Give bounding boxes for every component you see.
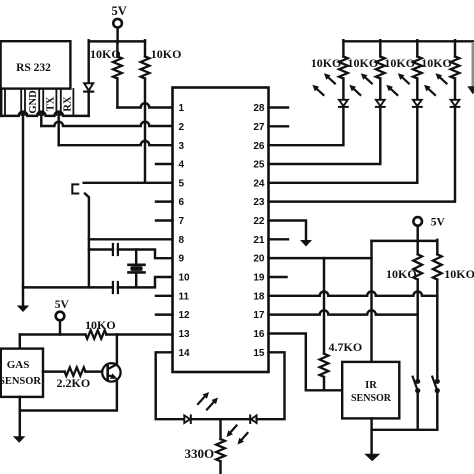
svg-text:SENSOR: SENSOR bbox=[351, 393, 392, 404]
ground (IR sensor) bbox=[364, 454, 380, 462]
svg-text:20: 20 bbox=[253, 254, 265, 265]
wire: crystal top lead bbox=[135, 250, 137, 265]
wire: R3 to pin 13 bbox=[106, 333, 172, 335]
svg-text:11: 11 bbox=[179, 291, 190, 302]
wire: 5V to rail bbox=[116, 28, 118, 43]
cropped wire at right edge bbox=[472, 42, 474, 87]
LED D7 bbox=[451, 100, 460, 106]
diode D1 bbox=[84, 83, 93, 90]
svg-text:10KO: 10KO bbox=[90, 47, 121, 61]
svg-text:25: 25 bbox=[253, 160, 265, 171]
wire: rail to diode D1 anode bbox=[87, 40, 89, 83]
D7 light arrows bbox=[440, 78, 446, 84]
ground (RS232 GND net) bbox=[17, 306, 29, 313]
LED D6 bbox=[413, 100, 422, 106]
D6 light arrows bbox=[402, 78, 408, 84]
svg-text:16: 16 bbox=[253, 329, 265, 340]
svg-text:5V: 5V bbox=[55, 299, 70, 311]
5V supply P3 bbox=[413, 217, 422, 226]
wire: junction down to R5 bbox=[219, 419, 221, 439]
switch S1 bbox=[415, 379, 420, 384]
LED D4 bbox=[339, 100, 348, 106]
wire: crystal bottom lead bbox=[135, 272, 137, 287]
pin 28 stub bbox=[269, 106, 289, 108]
pin 21 stub bbox=[269, 238, 289, 240]
wire: ground rail to C2 bbox=[23, 286, 113, 288]
wire: pin 18 net (hops R10, IR column, R11) bbox=[269, 291, 438, 295]
svg-text:5V: 5V bbox=[112, 4, 127, 18]
wire: down to gas sensor bbox=[19, 335, 21, 349]
pin 19 stub bbox=[269, 276, 287, 278]
wire: 5V to pin13 net bbox=[59, 320, 61, 334]
wire: R5 to bottom edge bbox=[219, 461, 221, 474]
IR sensor module bbox=[342, 362, 399, 419]
wire: D4 to pin 26 bbox=[269, 107, 344, 145]
wire: R12 to switch S2 (pin 18 tap) bbox=[436, 280, 438, 381]
wire: R4 to Q1 base bbox=[86, 370, 103, 372]
wire: C1 left lead bbox=[89, 248, 113, 250]
svg-text:23: 23 bbox=[253, 197, 265, 208]
svg-text:5: 5 bbox=[179, 178, 185, 189]
svg-text:10KO: 10KO bbox=[384, 56, 415, 70]
wire: pin 13 net left segment bbox=[20, 333, 86, 335]
svg-text:17: 17 bbox=[253, 310, 265, 321]
wire: TX vertical bbox=[40, 114, 42, 127]
wire: top-left rail bbox=[89, 40, 145, 42]
wire: R7 to LED D5 bbox=[379, 79, 381, 100]
svg-text:21: 21 bbox=[253, 235, 265, 246]
wire: shell bus to diode cathode (hops GND, TX, RX) bbox=[1, 112, 89, 116]
wire: RS232 shell to bus bbox=[0, 89, 2, 116]
svg-text:6: 6 bbox=[179, 197, 185, 208]
wire: RX to pin 3 (hops R2 wire) bbox=[59, 141, 173, 145]
wire: pin 17 net (hops R10, IR column) bbox=[269, 310, 418, 314]
pin 11 stub bbox=[156, 295, 173, 297]
svg-text:10KO: 10KO bbox=[348, 56, 379, 70]
cropped arrowhead at right edge bbox=[467, 86, 474, 94]
svg-text:GND: GND bbox=[28, 90, 39, 114]
svg-text:GAS: GAS bbox=[7, 359, 30, 371]
svg-text:10KO: 10KO bbox=[311, 56, 342, 70]
svg-text:10KO: 10KO bbox=[444, 267, 474, 281]
wire: gas sensor bottom to ground bbox=[19, 397, 21, 437]
svg-text:18: 18 bbox=[253, 291, 265, 302]
LED D2 bbox=[184, 415, 190, 423]
LED D5 bbox=[376, 100, 385, 106]
ground (pin 22) bbox=[300, 240, 312, 247]
svg-text:14: 14 bbox=[179, 348, 191, 359]
wire: C1 to crystal node, jog to pin 9 bbox=[118, 250, 173, 259]
wire: R11 to switch S1 (pin 17 tap) bbox=[416, 280, 418, 381]
wire: pin 20 to IR column bbox=[269, 257, 372, 259]
svg-text:26: 26 bbox=[253, 141, 265, 152]
wire: D2 to junction bbox=[191, 418, 250, 420]
svg-text:19: 19 bbox=[253, 273, 265, 284]
crystal Y1 bbox=[129, 263, 145, 266]
Q1 emitter arrow bbox=[110, 373, 117, 379]
svg-text:5V: 5V bbox=[431, 217, 446, 229]
svg-text:2: 2 bbox=[179, 122, 185, 133]
wire: D6 to pin 24 bbox=[269, 107, 418, 183]
header J2 bracket bbox=[72, 184, 78, 193]
wire: D5 to pin 25 bbox=[269, 107, 381, 164]
wire: right 5V rail bbox=[372, 240, 438, 242]
svg-text:12: 12 bbox=[179, 310, 191, 321]
wire: GND net down from RS232 bbox=[22, 114, 24, 307]
svg-text:10KO: 10KO bbox=[421, 56, 452, 70]
wire: D3 to pin 15 bbox=[257, 352, 285, 419]
wire: Q1 collector to pin 13 net bbox=[116, 335, 118, 365]
connector pin slot GND bbox=[24, 89, 26, 115]
wire: 5V to right rail bbox=[416, 226, 418, 242]
wire: gas sensor output to R4 bbox=[43, 370, 65, 372]
wire: D7 to pin 23 bbox=[269, 107, 456, 202]
pin 27 stub bbox=[269, 125, 289, 127]
svg-text:10KO: 10KO bbox=[85, 318, 116, 332]
wire: C2 to pin 10 jog bbox=[118, 277, 173, 287]
D5 light arrows bbox=[365, 78, 371, 84]
wire: TX to pin 2 (hops RX wire and R2 wire) bbox=[41, 122, 172, 126]
connector pin slot RX bbox=[60, 89, 62, 115]
wire: RX vertical bbox=[57, 114, 59, 146]
D2 light arrows bbox=[198, 397, 205, 404]
svg-text:7: 7 bbox=[179, 216, 185, 227]
wire: pin 14 to LED rail bbox=[156, 352, 186, 419]
wire: pin 22 to ground bbox=[269, 221, 307, 241]
svg-text:9: 9 bbox=[179, 254, 185, 265]
pin 4 stub bbox=[156, 163, 173, 165]
wire: R2 down to pin 5 net bbox=[144, 79, 146, 183]
wire: header to pin 5 bbox=[84, 182, 173, 184]
svg-text:SENSOR: SENSOR bbox=[0, 376, 41, 387]
capacitor C1 bbox=[112, 244, 114, 255]
svg-text:4.7KO: 4.7KO bbox=[329, 340, 363, 354]
connector pin slot TX bbox=[42, 89, 44, 115]
pin 6 stub bbox=[156, 200, 173, 202]
svg-text:13: 13 bbox=[179, 329, 191, 340]
svg-text:28: 28 bbox=[253, 103, 265, 114]
svg-text:15: 15 bbox=[253, 348, 265, 359]
svg-text:27: 27 bbox=[253, 122, 265, 133]
RS232 module J1 bbox=[1, 41, 71, 88]
connector pin slot (shell) bbox=[4, 89, 6, 115]
svg-text:RS 232: RS 232 bbox=[16, 62, 51, 74]
wire: D1 cathode down to bus bbox=[87, 92, 89, 116]
wire: header lower hook down to oscillator rail bbox=[85, 194, 89, 288]
svg-text:1: 1 bbox=[179, 103, 185, 114]
microcontroller U1 bbox=[173, 88, 269, 373]
capacitor C2 bbox=[112, 282, 114, 293]
svg-text:IR: IR bbox=[365, 380, 377, 391]
wire: Q1 emitter down and left bbox=[20, 380, 117, 411]
ground (gas sensor) bbox=[13, 436, 26, 443]
svg-text:8: 8 bbox=[179, 235, 185, 246]
wire: bottom rail to switches bbox=[372, 429, 438, 431]
svg-text:10: 10 bbox=[179, 273, 191, 284]
wire: R1 to pin 1 (hops R2 wire) bbox=[116, 79, 118, 108]
svg-text:330O: 330O bbox=[185, 446, 215, 461]
switch S2 bbox=[435, 379, 440, 384]
wire: pin 8 net bbox=[89, 238, 173, 240]
LED D3 bbox=[249, 415, 251, 423]
wire: S2 to bottom rail bbox=[436, 391, 438, 430]
svg-text:22: 22 bbox=[253, 216, 265, 227]
pin 7 stub bbox=[156, 219, 173, 221]
wire: rail down to IR sensor top (pin 20 tap) bbox=[370, 241, 372, 362]
svg-text:RX: RX bbox=[63, 96, 74, 112]
wire: R6 to LED D4 bbox=[342, 79, 344, 100]
D4 light arrows bbox=[329, 78, 335, 84]
svg-text:24: 24 bbox=[253, 178, 265, 189]
wire: LED bank 5V rail bbox=[343, 40, 474, 42]
svg-text:4: 4 bbox=[179, 160, 185, 171]
transistor Q1 bbox=[102, 363, 120, 381]
svg-text:TX: TX bbox=[45, 96, 56, 111]
svg-text:10KO: 10KO bbox=[151, 47, 182, 61]
wire: R8 to LED D6 bbox=[416, 79, 418, 100]
svg-text:3: 3 bbox=[179, 141, 185, 152]
gas sensor module bbox=[1, 349, 43, 397]
wire: pin 16 to IR sensor input bbox=[269, 334, 343, 391]
wire: R9 to LED D7 bbox=[454, 79, 456, 100]
wire: IR sensor bottom to ground bbox=[370, 418, 372, 454]
wire: S1 to bottom rail bbox=[416, 391, 418, 430]
R5 incoming light arrows bbox=[231, 426, 237, 433]
pin 12 stub bbox=[156, 313, 173, 315]
